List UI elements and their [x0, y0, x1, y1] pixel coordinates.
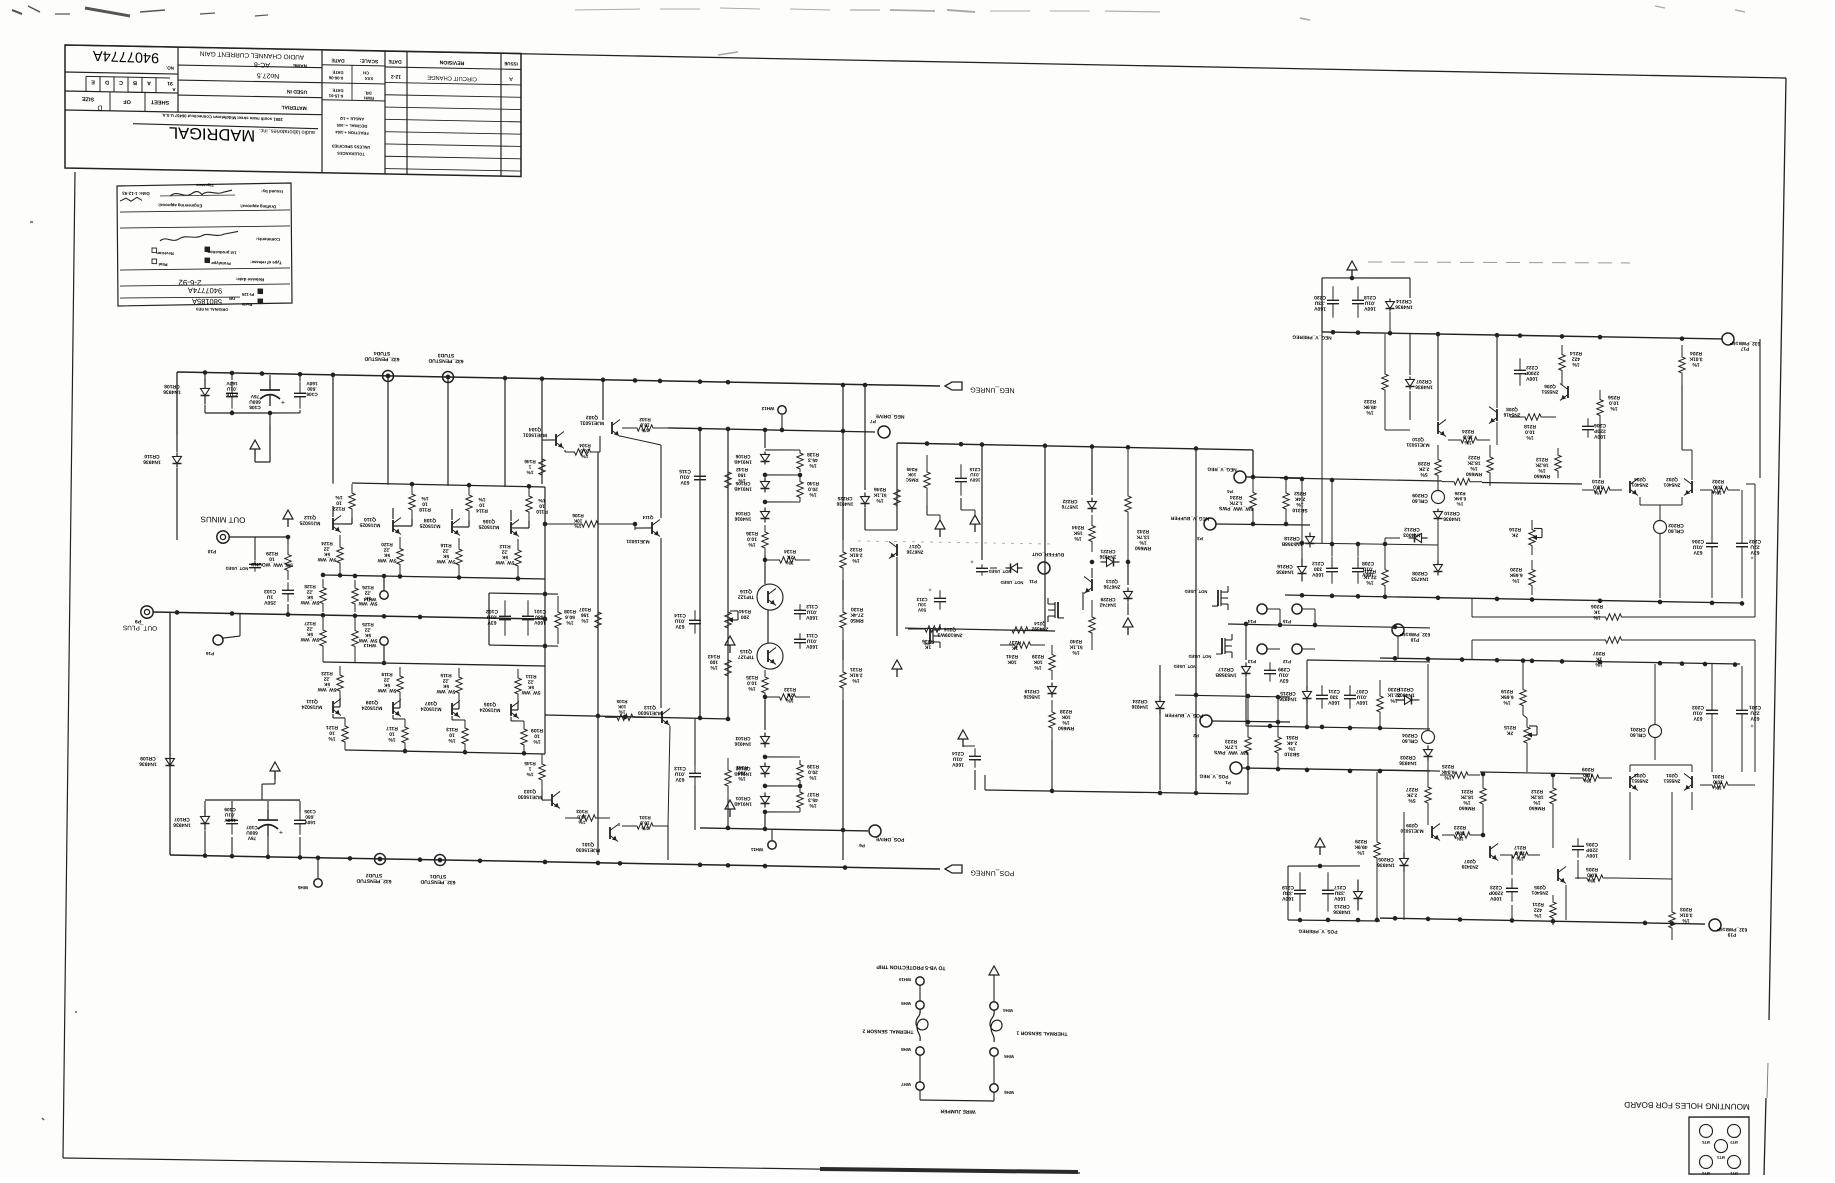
svg-text:1%: 1% — [1534, 912, 1542, 918]
svg-text:5K: 5K — [527, 684, 534, 690]
svg-text:MJ15024: MJ15024 — [301, 703, 322, 709]
svg-text:1%: 1% — [1526, 434, 1534, 440]
svg-text:C115: C115 — [679, 468, 691, 474]
svg-text:1%: 1% — [1463, 799, 1471, 805]
resistor R143 100 1% — [725, 648, 731, 688]
transistor Q204 2N5401 — [1629, 481, 1631, 493]
svg-text:TO VB-5 PROTECTION TRIP: TO VB-5 PROTECTION TRIP — [876, 963, 946, 970]
capacitor C215 .01U 160V — [960, 464, 962, 478]
svg-text:1%: 1% — [641, 427, 649, 433]
resistor R246 51.1K 1% — [894, 480, 900, 515]
svg-text:680U: 680U — [249, 398, 261, 404]
svg-text:STUD3: STUD3 — [438, 352, 455, 358]
svg-text:10K: 10K — [1061, 714, 1071, 720]
svg-text:1N4936: 1N4936 — [139, 760, 157, 766]
svg-text:1%: 1% — [1714, 489, 1722, 495]
resistor R238 10K RM650 — [1049, 700, 1055, 740]
wire: NEG_DRIVE line — [668, 428, 875, 432]
terminal P1 POS_V_REG — [1230, 762, 1242, 774]
svg-text:1%: 1% — [1533, 799, 1541, 805]
svg-text:.01U: .01U — [674, 617, 685, 623]
svg-text:MT2: MT2 — [1730, 1140, 1738, 1144]
resistor R140 20.0 1% — [797, 477, 803, 502]
capacitor C214 .01U 160V — [974, 748, 976, 756]
svg-text:+: + — [970, 558, 974, 564]
scan artifact dashed line — [1368, 258, 1630, 267]
svg-text:1%: 1% — [388, 736, 396, 742]
svg-text:12-2: 12-2 — [391, 73, 401, 79]
svg-text:R118: R118 — [419, 506, 431, 512]
resistor R221 18.2K RM650 — [1480, 774, 1486, 818]
svg-text:R215: R215 — [1504, 724, 1516, 730]
svg-text:1.27K: 1.27K — [1224, 743, 1238, 749]
svg-text:WH9: WH9 — [901, 1001, 911, 1006]
svg-text:1%: 1% — [581, 617, 589, 623]
scan noise — [12, 10, 22, 14]
capacitor C101 .68U 160V — [527, 600, 529, 616]
svg-text:10U: 10U — [917, 602, 926, 607]
svg-text:.22: .22 — [442, 677, 449, 683]
svg-text:+: + — [1750, 554, 1754, 560]
svg-text:NEG_UNREG: NEG_UNREG — [970, 386, 1014, 394]
svg-text:Q213: Q213 — [1106, 578, 1118, 584]
transistor Q217 2N6736 — [896, 544, 898, 556]
wire: return loop R206 — [1471, 598, 1473, 617]
resistor R109 10 1% — [521, 721, 527, 753]
svg-text:C215: C215 — [969, 467, 980, 472]
resistor R201 10.0 1% — [1700, 781, 1740, 788]
ground (thermal) — [989, 966, 999, 975]
svg-text:1N4936: 1N4936 — [1131, 703, 1148, 709]
bottom filter caps cluster — [205, 798, 300, 801]
resistor R113 10 1% — [462, 720, 468, 752]
transistor NOT_USED fet upper — [1217, 590, 1219, 606]
svg-text:C208: C208 — [1362, 560, 1374, 566]
resistor R130 27.4K RM50 — [840, 600, 846, 640]
svg-text:1%: 1% — [533, 738, 541, 744]
svg-text:100V: 100V — [1490, 895, 1502, 901]
svg-text:MT6: MT6 — [1702, 1140, 1710, 1144]
svg-text:CRL60: CRL60 — [1630, 731, 1646, 737]
diode CR222 1N5776 — [1091, 448, 1093, 495]
terminal P11 BUFFER_OUT — [1038, 562, 1050, 574]
svg-text:C211: C211 — [1328, 688, 1340, 694]
svg-text:10.0: 10.0 — [747, 536, 757, 542]
title block inner lines — [65, 105, 322, 119]
diode CR229 1N4742 — [1127, 562, 1129, 585]
svg-text:R251: R251 — [1286, 734, 1298, 740]
svg-text:2K: 2K — [1511, 532, 1518, 538]
svg-text:5W_WW: 5W_WW — [436, 688, 455, 694]
wire: OUT_PLUS rail — [153, 612, 545, 620]
transistor Q205 2N5401 — [1557, 869, 1559, 881]
terminal WH13 — [380, 637, 388, 646]
svg-text:R239: R239 — [1032, 653, 1044, 659]
svg-text:R131: R131 — [850, 666, 862, 672]
svg-text:160V: 160V — [806, 643, 818, 649]
transistor Q112 MJ15025 — [332, 518, 334, 530]
svg-text:THERMAL SENSOR 2: THERMAL SENSOR 2 — [862, 1028, 913, 1035]
resistor R231 22.1K 1% — [1382, 560, 1388, 595]
svg-text:Q203: Q203 — [1634, 772, 1646, 778]
resistor R122 10 1% — [349, 484, 355, 518]
svg-text:10: 10 — [534, 733, 540, 739]
svg-text:5K: 5K — [306, 631, 313, 637]
diode CR207 1N4936 — [1409, 334, 1411, 375]
wire: diode ladder top — [764, 430, 766, 448]
svg-text:R225: R225 — [1442, 763, 1454, 769]
diode CR224 1N4936 — [1159, 695, 1161, 701]
svg-text:.01U: .01U — [1692, 544, 1703, 550]
svg-text:R107: R107 — [579, 606, 591, 612]
transistor Q209 MJE15030 — [1431, 826, 1433, 838]
svg-text:6.04K: 6.04K — [1441, 768, 1455, 774]
svg-text:1%: 1% — [1594, 489, 1602, 495]
svg-text:10.0: 10.0 — [1609, 399, 1619, 405]
svg-text:1%: 1% — [1457, 501, 1464, 506]
svg-text:C217: C217 — [1334, 884, 1346, 890]
svg-text:R232: R232 — [1364, 398, 1376, 404]
svg-text:MJE15031: MJE15031 — [626, 538, 650, 544]
svg-text:160V: 160V — [969, 477, 981, 482]
svg-text:C204: C204 — [1692, 538, 1704, 544]
svg-text:R217: R217 — [1514, 844, 1526, 850]
wire: vertical rails NEG block — [1496, 422, 1498, 445]
svg-text:1: 1 — [528, 765, 531, 771]
resistor R107 156 1% — [595, 600, 601, 640]
svg-text:C203: C203 — [1692, 704, 1704, 710]
svg-text:.01U: .01U — [1364, 300, 1375, 306]
svg-text:THERMAL SENSOR 1: THERMAL SENSOR 1 — [1016, 1030, 1067, 1037]
svg-text:TOLERANCES: TOLERANCES — [337, 151, 365, 157]
terminal P15 — [1292, 604, 1302, 614]
svg-text:P18: P18 — [1410, 636, 1419, 642]
svg-text:WH12: WH12 — [761, 406, 774, 411]
svg-text:CR213: CR213 — [1334, 903, 1350, 909]
resistor R237 1K — [995, 626, 1045, 634]
svg-text:2N5551: 2N5551 — [1541, 388, 1558, 394]
svg-text:R229: R229 — [1355, 838, 1367, 844]
svg-text:100V: 100V — [1526, 375, 1538, 381]
svg-text:P9: P9 — [135, 618, 141, 624]
svg-text:160V: 160V — [1334, 895, 1346, 901]
svg-text:NOT_USED: NOT_USED — [1001, 580, 1024, 585]
svg-text:R203: R203 — [1680, 906, 1692, 912]
capacitor C204 .01U 63V — [1711, 531, 1713, 543]
svg-text:WH5: WH5 — [297, 885, 308, 890]
svg-text:POS_V_BUFFER: POS_V_BUFFER — [1164, 712, 1203, 719]
resistor R114 10 1% — [466, 486, 472, 520]
svg-text:R228: R228 — [1418, 460, 1430, 466]
capacitor C105 .68U 160V — [299, 809, 301, 820]
resistor R243 13.7K RM650 — [1125, 448, 1131, 560]
svg-text:C213: C213 — [916, 597, 927, 602]
svg-text:5K: 5K — [383, 552, 390, 558]
svg-text:3.01K: 3.01K — [1689, 355, 1703, 361]
wire: POS loop top R207 — [1471, 640, 1473, 660]
terminal P16 — [213, 635, 223, 645]
svg-text:1%: 1% — [809, 462, 817, 468]
wire: lower bank top bus — [323, 662, 545, 666]
resistor R207 1K — [1472, 634, 1755, 646]
svg-text:.01U: .01U — [1362, 566, 1373, 572]
svg-text:10.0: 10.0 — [640, 421, 650, 427]
resistor R127 .22 5W_WW — [320, 614, 326, 662]
resistor R146 1 1% — [539, 450, 545, 484]
wire: neg prereg cap box — [1322, 276, 1410, 279]
svg-text:1N4936: 1N4936 — [143, 458, 161, 464]
svg-text:10.0: 10.0 — [1713, 778, 1723, 784]
svg-text:R142: R142 — [736, 466, 748, 472]
svg-text:160V: 160V — [306, 380, 318, 386]
stud STUD2 632_PENSTUD — [375, 853, 386, 864]
resistor R117 10 1% — [402, 719, 408, 751]
capacitor C208 .01U 160V — [1357, 556, 1359, 568]
svg-text:CR108: CR108 — [164, 383, 180, 389]
svg-text:160V: 160V — [952, 761, 964, 767]
svg-text:C201: C201 — [1749, 704, 1761, 710]
svg-text:1%: 1% — [876, 497, 884, 503]
svg-text:R222: R222 — [1468, 454, 1480, 460]
resistor R137 45.3 1% — [797, 788, 803, 812]
svg-text:60.6: 60.6 — [565, 614, 575, 620]
resistor R115 .22 5K 5W_WW — [456, 668, 462, 702]
svg-text:R144: R144 — [739, 608, 751, 614]
wire: NEG mid bus — [897, 443, 1253, 450]
wire: POS_V_PREREG bus — [1288, 919, 1380, 921]
capacitor C217 .33U 160V — [1327, 872, 1329, 890]
svg-text:Q107: Q107 — [425, 700, 437, 706]
resistor R136 10.0 1% — [762, 525, 768, 555]
svg-text:CR201: CR201 — [1630, 726, 1646, 732]
ground (R129 top) — [283, 510, 293, 519]
svg-text:MJE15031: MJE15031 — [1406, 441, 1430, 447]
transistor Q107 MJ15024 — [451, 703, 453, 715]
terminal WH5b — [990, 1048, 998, 1057]
svg-text:632_PWB16P: 632_PWB16P — [1716, 926, 1747, 933]
svg-text:C212: C212 — [1312, 560, 1324, 566]
transistor Q213 2N6736 — [1091, 579, 1093, 591]
svg-text:WH5: WH5 — [1004, 1054, 1014, 1059]
svg-text:R109: R109 — [531, 727, 543, 733]
svg-text:Pilot: Pilot — [158, 262, 168, 267]
svg-text:10: 10 — [479, 502, 485, 508]
resistor R236 1K — [908, 625, 958, 633]
svg-text:2.4K: 2.4K — [1294, 496, 1305, 502]
svg-text:5W_WW: 5W_WW — [377, 687, 396, 693]
svg-text:POS_V_REG: POS_V_REG — [1199, 773, 1228, 780]
svg-text:C109: C109 — [224, 806, 236, 812]
capacitor C299 .01U 63V — [1269, 662, 1271, 670]
svg-text:16.2K: 16.2K — [1535, 461, 1549, 467]
resistor R210 10.0 1% — [1582, 486, 1622, 493]
resistor R229 49.9K 1% — [1374, 830, 1380, 870]
wire: bus y=768 — [1242, 767, 1430, 771]
terminal WH8 — [916, 1047, 924, 1056]
svg-text:1st production: 1st production — [207, 250, 237, 256]
svg-text:160V: 160V — [1312, 571, 1324, 577]
svg-text:R104: R104 — [579, 442, 591, 448]
svg-text:R129: R129 — [266, 550, 278, 556]
diode CR106 1N914B — [764, 451, 766, 454]
svg-text:BUFFER_OUT: BUFFER_OUT — [1032, 551, 1064, 558]
svg-text:R204: R204 — [1690, 350, 1702, 356]
wire: POS top bus y=661 — [1380, 657, 1740, 664]
transistor Q115 TIP127 (darlington) — [757, 643, 783, 669]
resistor R240 51.1K 1% — [1089, 600, 1095, 650]
svg-text:1N914B: 1N914B — [734, 800, 752, 806]
svg-text:P3: P3 — [1197, 536, 1203, 541]
resistor R104 10.0 1% — [565, 448, 600, 455]
transistor Q210 MJE15031 — [1437, 422, 1439, 434]
wire: rail x=542 top — [541, 379, 543, 484]
svg-text:1%: 1% — [1470, 465, 1478, 471]
transistor Q206 2N5551 — [1567, 386, 1569, 398]
svg-text:CR215: CR215 — [1280, 690, 1296, 696]
svg-text:5W_WW: 5W_WW — [377, 557, 396, 563]
svg-text:WH6: WH6 — [1004, 1090, 1014, 1095]
svg-text:1%: 1% — [1390, 697, 1398, 703]
svg-text:9407774A: 9407774A — [93, 47, 159, 65]
resistor R111 .22 5K 5W_WW — [515, 669, 521, 703]
sheet left border — [63, 172, 75, 1158]
diode CR109 1N4936 — [169, 758, 171, 760]
svg-text:R212: R212 — [1531, 788, 1543, 794]
svg-text:1U: 1U — [266, 594, 273, 600]
capacitor C206 220P 100V — [1587, 418, 1589, 426]
svg-text:R224: R224 — [1462, 428, 1474, 434]
svg-text:1N4936: 1N4936 — [1443, 515, 1461, 521]
svg-text:63V: 63V — [1693, 715, 1703, 721]
resistor R209 10.0 1% — [1570, 774, 1612, 781]
svg-text:.22: .22 — [306, 625, 313, 631]
svg-text:P13: P13 — [1247, 659, 1256, 664]
svg-text:XXX: XXX — [365, 76, 374, 81]
svg-text:632_PENSTUD: 632_PENSTUD — [428, 357, 463, 364]
svg-text:.22: .22 — [501, 548, 508, 554]
capacitor C202 22U 63V — [1741, 531, 1743, 543]
svg-text:2K: 2K — [786, 692, 793, 698]
svg-text:Release date:: Release date: — [235, 277, 264, 283]
svg-text:63V: 63V — [1693, 549, 1703, 555]
svg-text:5W_WW_PWS: 5W_WW_PWS — [1218, 505, 1253, 512]
svg-text:ISSUE: ISSUE — [504, 61, 518, 67]
svg-text:1%: 1% — [1366, 409, 1374, 415]
diode CR217 1N5358B — [1245, 624, 1247, 660]
svg-text:R137: R137 — [807, 791, 819, 797]
svg-text:CR104: CR104 — [735, 510, 750, 516]
svg-text:Drafting approval:: Drafting approval: — [240, 204, 276, 210]
capacitor C112 .01U 160V — [799, 604, 801, 610]
svg-text:C223: C223 — [1490, 884, 1502, 890]
svg-text:.680: .680 — [305, 813, 315, 819]
svg-text:1%: 1% — [786, 697, 794, 703]
ground (R245) — [935, 520, 945, 529]
resistor R203 3.01K 1% — [1669, 900, 1675, 940]
diode CR221 1N4936 — [1101, 561, 1107, 563]
svg-text:R234: R234 — [1230, 494, 1242, 500]
transistor Q111 MJ15024 — [332, 701, 334, 713]
svg-text:5%: 5% — [1420, 471, 1428, 477]
svg-text:NEG_V_PREREG: NEG_V_PREREG — [1292, 334, 1331, 341]
resistor R234 1.27K 5W_WW_PWS — [1250, 477, 1256, 524]
svg-text:C101: C101 — [534, 608, 546, 614]
svg-text:1N4936: 1N4936 — [1399, 759, 1417, 765]
svg-text:R110: R110 — [536, 508, 548, 514]
svg-text:1N5636: 1N5636 — [1023, 693, 1040, 699]
svg-text:WH10: WH10 — [898, 977, 911, 982]
svg-text:Q102: Q102 — [586, 414, 598, 420]
resistor R138 45.3 1% — [797, 450, 803, 472]
svg-text:1K: 1K — [1593, 609, 1600, 615]
svg-text:.22: .22 — [383, 546, 390, 552]
transistor Q214 2N4392 — [1057, 602, 1059, 618]
svg-text:C207: C207 — [1356, 688, 1368, 694]
svg-text:CR217: CR217 — [1218, 666, 1234, 672]
svg-text:6.65K: 6.65K — [1500, 693, 1514, 699]
svg-text:Signature: Signature — [196, 183, 214, 187]
svg-text:C219: C219 — [1282, 884, 1294, 890]
svg-text:R123: R123 — [321, 670, 333, 676]
svg-text:Q201: Q201 — [1666, 772, 1678, 778]
svg-text:1K: 1K — [924, 644, 931, 650]
svg-text:1%: 1% — [852, 557, 860, 563]
hole MT1 — [1728, 1155, 1741, 1168]
wire: upper bank vertical rails from top bus — [332, 375, 334, 484]
svg-text:1%: 1% — [1714, 784, 1722, 790]
svg-text:C106: C106 — [306, 391, 318, 397]
svg-text:10.0: 10.0 — [747, 680, 757, 686]
diode CR219 1N5636 — [1051, 682, 1053, 686]
svg-text:MT3: MT3 — [1717, 1155, 1725, 1159]
svg-text:P1: P1 — [1225, 780, 1231, 785]
svg-text:MJ15025: MJ15025 — [478, 523, 499, 529]
svg-text:2N4392: 2N4392 — [1031, 625, 1048, 631]
svg-text:CR210: CR210 — [1444, 510, 1460, 516]
svg-text:R119: R119 — [381, 671, 393, 677]
resistor R220 6.65K 1% — [1529, 560, 1535, 595]
resistor R120 .22 5K 5W_WW — [397, 537, 403, 576]
svg-text:B: B — [133, 79, 137, 85]
svg-text:49.9K: 49.9K — [1363, 404, 1377, 410]
resistor R134 2K 1% — [765, 556, 810, 564]
svg-text:1%: 1% — [1464, 439, 1472, 445]
svg-text:.01U: .01U — [952, 756, 963, 762]
svg-text:Q206: Q206 — [1544, 383, 1556, 389]
svg-text:SCALE:: SCALE: — [359, 57, 378, 64]
diode CR104 1N4936 — [764, 507, 766, 511]
svg-text:R201: R201 — [1712, 773, 1724, 779]
diode CR210 1N4936 — [1437, 509, 1439, 512]
svg-text:Q214: Q214 — [1034, 620, 1046, 626]
sheet bottom border — [63, 1154, 1080, 1177]
svg-text:Q109: Q109 — [366, 699, 378, 705]
svg-text:1N5776: 1N5776 — [1061, 503, 1078, 509]
svg-text:1%: 1% — [852, 677, 860, 683]
ground (neg prereg) — [1347, 261, 1357, 270]
resistor R126 .22 5W_WW — [352, 580, 358, 612]
svg-text:R133: R133 — [784, 686, 796, 692]
revision table — [406, 51, 408, 174]
capacitor C111 .01U 160V — [799, 633, 801, 639]
svg-text:1N4003: 1N4003 — [1397, 691, 1415, 697]
svg-text:330: 330 — [1314, 566, 1323, 572]
svg-text:1%: 1% — [526, 771, 534, 777]
svg-text:NOT_USED: NOT_USED — [1189, 654, 1212, 659]
wire: x=1660 down from CR202 — [1659, 560, 1661, 598]
svg-text:10: 10 — [539, 503, 545, 509]
resistor R244 15K 1% — [1089, 515, 1095, 552]
